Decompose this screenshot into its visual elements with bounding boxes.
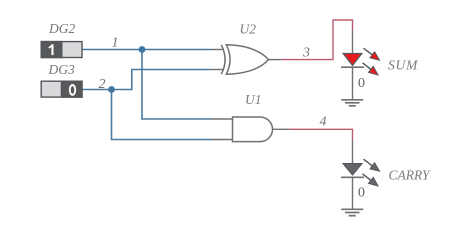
svg-text:2: 2: [99, 77, 106, 92]
label U2: [240, 22, 257, 37]
svg-text:CARRY: CARRY: [389, 167, 431, 182]
label SUM: [388, 57, 418, 72]
wire net 1 (DG2 to XOR top input): [82, 49, 210, 51]
input switch DG3: [41, 81, 82, 97]
svg-text:DG2: DG2: [48, 21, 75, 36]
and gate U1: [210, 117, 289, 142]
svg-text:0: 0: [358, 186, 365, 201]
label U1: [245, 92, 262, 107]
label DG2: [48, 21, 75, 36]
net label 4: [320, 115, 327, 130]
svg-text:1: 1: [112, 36, 119, 51]
net label 3: [302, 46, 310, 61]
ground (SUM): [341, 100, 363, 106]
wire net 1 branch (down to AND top input): [142, 50, 210, 120]
value 0 (SUM LED): [358, 76, 365, 91]
junction node 1: [139, 46, 146, 53]
LED SUM (lit, red): [341, 31, 380, 100]
svg-text:DG3: DG3: [48, 62, 75, 77]
wire net 3 (XOR output to SUM LED): [282, 20, 353, 60]
ground (CARRY): [341, 209, 363, 215]
svg-text:U2: U2: [240, 22, 257, 37]
net label 1: [112, 36, 119, 51]
label CARRY: [389, 167, 431, 182]
svg-text:SUM: SUM: [388, 57, 418, 72]
junction node 2: [108, 86, 115, 93]
svg-text:U1: U1: [245, 92, 262, 107]
LED CARRY (off, gray): [341, 141, 380, 210]
wire net 2 branch (down to AND bottom input): [112, 90, 211, 140]
svg-text:0: 0: [358, 76, 365, 91]
label DG3: [48, 62, 75, 77]
xor gate U2: [210, 45, 282, 74]
svg-text:3: 3: [302, 46, 310, 61]
svg-text:4: 4: [320, 115, 327, 130]
wire net 2 (DG3 right, up, to XOR bottom input): [82, 70, 210, 90]
wire net 4 (AND output to CARRY LED): [289, 129, 353, 140]
net label 2: [99, 77, 106, 92]
input switch DG2: [41, 42, 82, 58]
value 0 (CARRY LED): [358, 186, 365, 201]
